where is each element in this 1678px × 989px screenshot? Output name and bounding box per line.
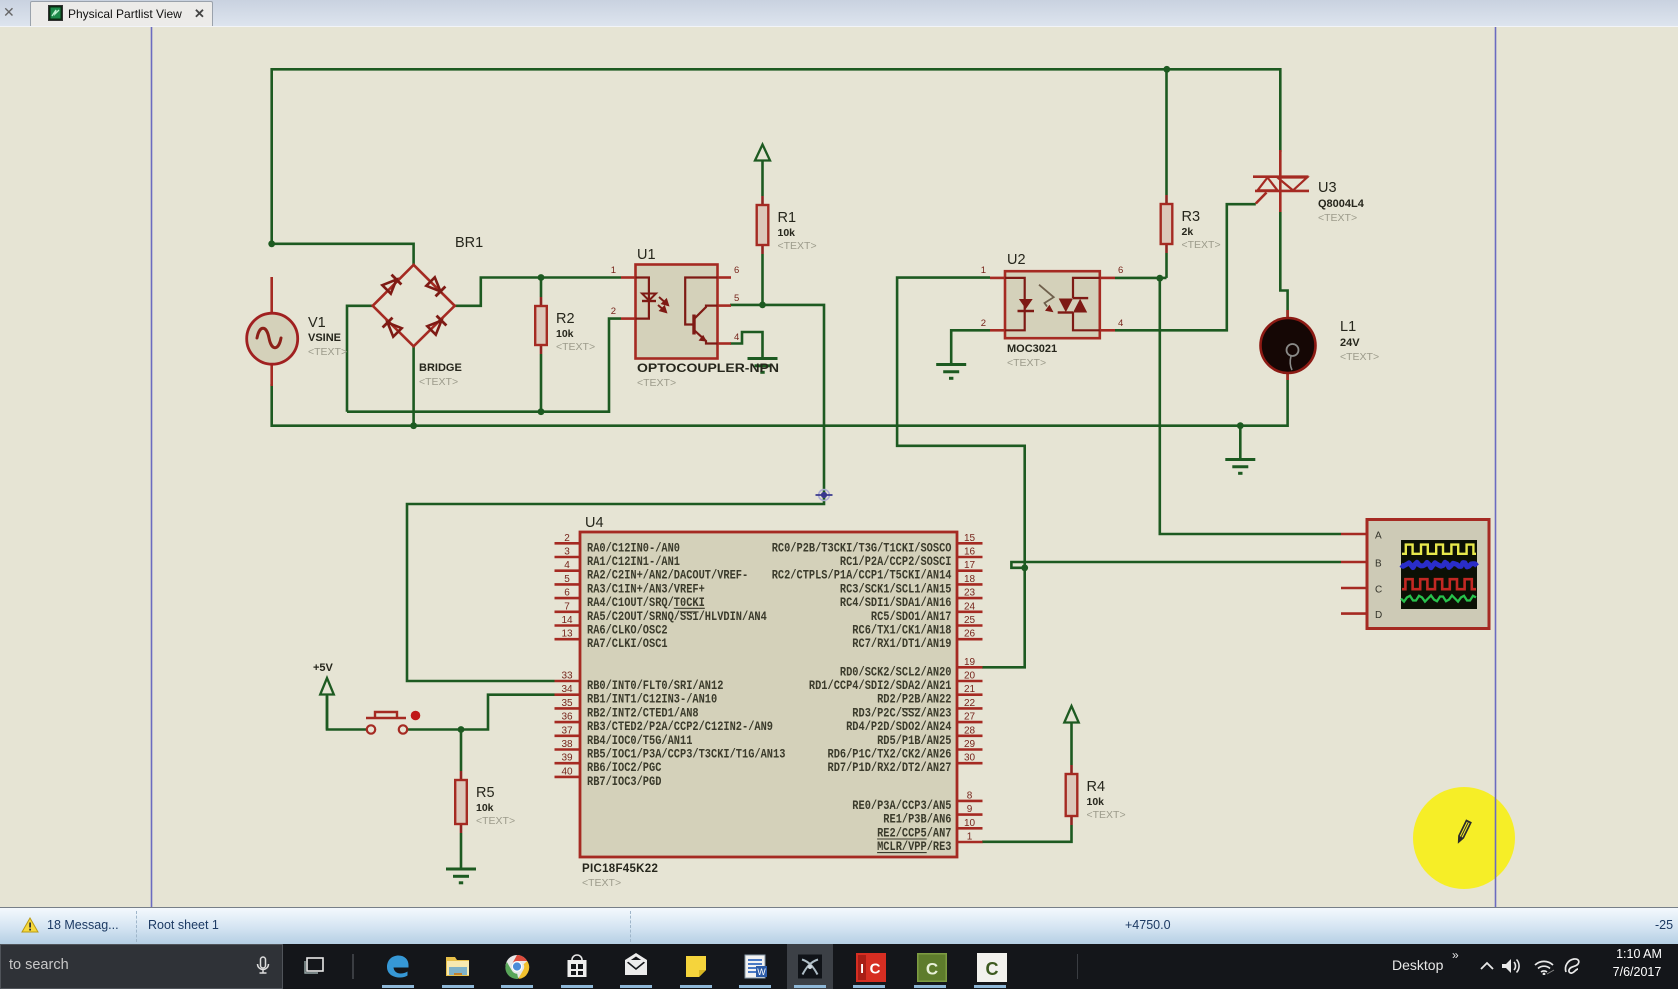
svg-text:RE1/P3B/AN6: RE1/P3B/AN6 [883, 813, 951, 827]
wire [347, 319, 621, 412]
svg-text:R2: R2 [556, 311, 575, 327]
svg-text:<TEXT>: <TEXT> [308, 346, 347, 358]
svg-text:C: C [870, 961, 881, 978]
wire [326, 695, 329, 730]
source V1 VSINE [247, 277, 347, 386]
svg-text:RD5/P1B/AN25: RD5/P1B/AN25 [877, 734, 951, 748]
svg-text:MCLR/VPP/RE3: MCLR/VPP/RE3 [877, 840, 951, 854]
svg-text:RC4/SDI1/SDA1/AN16: RC4/SDI1/SDA1/AN16 [840, 596, 952, 610]
taskbar icon Store [564, 953, 590, 980]
wire [761, 161, 764, 197]
scope trace C red [1402, 579, 1476, 589]
svg-text:40: 40 [561, 766, 573, 777]
svg-text:RA6/CLKO/OSC2: RA6/CLKO/OSC2 [587, 624, 668, 638]
pencil cursor [1457, 821, 1471, 843]
U4 pin 17 RC2 [772, 560, 983, 583]
svg-text:16: 16 [964, 547, 976, 558]
ground [1225, 460, 1255, 474]
wire junction [410, 422, 417, 429]
node origin marker [816, 490, 833, 501]
svg-text:W: W [757, 967, 766, 977]
U4 pin 19 RD0 [840, 657, 983, 680]
resistor R1 [757, 196, 817, 254]
push button [366, 711, 420, 734]
U4 pin 20 RD1 [809, 671, 983, 694]
wire [407, 728, 461, 731]
svg-text:U4: U4 [585, 515, 604, 531]
ground [748, 359, 778, 373]
svg-text:RA5/C2OUT/SRNQ/SS1/HLVDIN/AN4: RA5/C2OUT/SRNQ/SS1/HLVDIN/AN4 [587, 610, 767, 624]
svg-text:RA7/CLKI/OSC1: RA7/CLKI/OSC1 [587, 637, 668, 651]
U4 pin 34 RB1 [555, 684, 718, 707]
svg-text:RB5/IOC1/P3A/CCP3/T3CKI/T1G/AN: RB5/IOC1/P3A/CCP3/T3CKI/T1G/AN13 [587, 748, 785, 762]
U4 pin 16 RC1 [840, 547, 983, 570]
svg-text:RA0/C12IN0-/AN0: RA0/C12IN0-/AN0 [587, 541, 680, 555]
svg-text:<TEXT>: <TEXT> [419, 376, 458, 388]
wire [982, 825, 1072, 842]
svg-text:2k: 2k [1182, 226, 1194, 238]
taskbar icon CamtasiaWhite [977, 953, 1003, 980]
wire [407, 305, 824, 681]
svg-text:27: 27 [964, 712, 976, 723]
svg-text:10: 10 [964, 818, 976, 829]
svg-text:<TEXT>: <TEXT> [556, 341, 595, 353]
svg-text:10k: 10k [1087, 796, 1105, 808]
svg-text:U2: U2 [1007, 252, 1026, 268]
wire junction [538, 274, 545, 281]
scope trace D green [1401, 595, 1476, 601]
U4 pin 7 RA5 [555, 601, 768, 624]
U4 pin 4 RA2 [555, 560, 749, 583]
power +V arrow [1064, 706, 1078, 723]
svg-text:6: 6 [1118, 265, 1123, 276]
taskbar icon IC [856, 953, 882, 980]
svg-text:1: 1 [981, 265, 986, 276]
svg-text:L1: L1 [1340, 319, 1356, 335]
svg-text:30: 30 [964, 753, 976, 764]
svg-text:<TEXT>: <TEXT> [1318, 212, 1357, 224]
svg-text:22: 22 [964, 698, 976, 709]
svg-text:<TEXT>: <TEXT> [476, 815, 515, 827]
U4 pin 39 RB6 [555, 753, 662, 776]
svg-text:29: 29 [964, 739, 976, 750]
U4 pin 18 RC3 [840, 574, 983, 597]
svg-text:A: A [1375, 531, 1382, 542]
wire [460, 833, 463, 868]
taskbar icon Word [742, 953, 768, 980]
svg-text:5: 5 [564, 574, 570, 585]
wire [272, 244, 414, 266]
optocoupler U2 MOC3021 [981, 252, 1124, 369]
svg-text:6: 6 [564, 588, 570, 599]
svg-text:RB2/INT2/CTED1/AN8: RB2/INT2/CTED1/AN8 [587, 706, 699, 720]
svg-text:BR1: BR1 [455, 235, 483, 251]
svg-text:RD0/SCK2/SCL2/AN20: RD0/SCK2/SCL2/AN20 [840, 665, 952, 679]
svg-text:21: 21 [964, 684, 976, 695]
svg-text:1: 1 [611, 265, 616, 276]
svg-text:7: 7 [564, 601, 570, 612]
svg-text:23: 23 [964, 588, 976, 599]
U4 pin 5 RA3 [555, 574, 705, 597]
svg-text:RC7/RX1/DT1/AN19: RC7/RX1/DT1/AN19 [852, 637, 951, 651]
ground [446, 869, 476, 883]
svg-text:5: 5 [734, 293, 739, 304]
wire [897, 278, 1025, 668]
wire [1165, 69, 1168, 195]
svg-text:<TEXT>: <TEXT> [1182, 239, 1221, 251]
svg-text:RC5/SDO1/AN17: RC5/SDO1/AN17 [871, 610, 952, 624]
wire junction [538, 408, 545, 415]
svg-text:VSINE: VSINE [308, 332, 341, 344]
taskbar icon Explorer [445, 953, 471, 980]
triac U3 Q8004L4 [1253, 150, 1365, 224]
svg-text:<TEXT>: <TEXT> [1340, 351, 1379, 363]
svg-text:26: 26 [964, 629, 976, 640]
svg-text:RC0/P2B/T3CKI/T3G/T1CKI/SOSCO: RC0/P2B/T3CKI/T3G/T1CKI/SOSCO [772, 541, 952, 555]
oscilloscope [1367, 520, 1489, 629]
wire junction [1163, 66, 1170, 73]
U4 pin 26 RC7 [852, 629, 982, 652]
svg-text:+5V: +5V [313, 662, 334, 674]
U4 pin 36 RB3 [555, 712, 774, 735]
svg-text:28: 28 [964, 725, 976, 736]
U4 pin 35 RB2 [555, 698, 699, 721]
svg-text:RD2/P2B/AN22: RD2/P2B/AN22 [877, 693, 951, 707]
svg-text:2: 2 [981, 318, 986, 329]
U4 pin 22 RD3 [852, 698, 982, 721]
svg-text:R1: R1 [778, 210, 797, 226]
svg-text:24V: 24V [1340, 337, 1360, 349]
scope trace B blue [1401, 562, 1477, 567]
svg-text:RB1/INT1/C12IN3-/AN10: RB1/INT1/C12IN3-/AN10 [587, 693, 717, 707]
wire [347, 306, 373, 412]
svg-text:RA1/C12IN1-/AN1: RA1/C12IN1-/AN1 [587, 555, 680, 569]
svg-text:4: 4 [1118, 318, 1123, 329]
svg-text:B: B [1375, 559, 1382, 570]
svg-text:25: 25 [964, 615, 976, 626]
U4 pin 3 RA1 [555, 547, 681, 570]
U4 pin 24 RC5 [871, 601, 983, 624]
svg-text:RB0/INT0/FLT0/SRI/AN12: RB0/INT0/FLT0/SRI/AN12 [587, 679, 723, 693]
wire junction [268, 240, 275, 247]
U4 pin 28 RD5 [877, 725, 982, 748]
wire [1165, 253, 1168, 278]
svg-text:RE2/CCP5/AN7: RE2/CCP5/AN7 [877, 826, 951, 840]
taskbar icon Edge [385, 953, 411, 980]
U4 pin 9 RE1 [883, 804, 982, 827]
svg-text:8: 8 [967, 790, 973, 801]
wire [951, 330, 990, 364]
svg-text:10k: 10k [476, 802, 494, 814]
svg-text:35: 35 [561, 698, 573, 709]
svg-text:RE0/P3A/CCP3/AN5: RE0/P3A/CCP3/AN5 [852, 799, 951, 813]
svg-text:24: 24 [964, 601, 976, 612]
microcontroller U4 PIC18F45K22 [580, 515, 957, 889]
power +V arrow [755, 145, 770, 161]
svg-text:14: 14 [561, 615, 573, 626]
svg-text:R4: R4 [1087, 779, 1106, 795]
svg-text:Q8004L4: Q8004L4 [1318, 198, 1365, 210]
svg-text:OPTOCOUPLER-NPN: OPTOCOUPLER-NPN [637, 363, 779, 375]
wire [412, 345, 415, 425]
svg-text:15: 15 [964, 533, 976, 544]
wire [1011, 562, 1341, 568]
svg-text:37: 37 [561, 725, 573, 736]
U4 pin 1 MCLR [877, 832, 982, 855]
svg-text:PIC18F45K22: PIC18F45K22 [582, 863, 658, 875]
svg-text:20: 20 [964, 671, 976, 682]
U4 pin 14 RA6 [555, 615, 668, 638]
U4 pin 8 RE0 [852, 790, 982, 813]
svg-text:R3: R3 [1182, 209, 1201, 225]
button state dot [411, 711, 421, 721]
U4 pin 27 RD4 [846, 712, 982, 735]
svg-text:RC1/P2A/CCP2/SOSCI: RC1/P2A/CCP2/SOSCI [840, 555, 952, 569]
svg-text:<TEXT>: <TEXT> [1007, 357, 1046, 369]
svg-text:U3: U3 [1318, 180, 1337, 196]
svg-text:V1: V1 [308, 315, 326, 331]
svg-text:4: 4 [564, 560, 570, 571]
svg-text:RB6/IOC2/PGC: RB6/IOC2/PGC [587, 761, 662, 775]
wire [1160, 278, 1341, 534]
wire [1239, 426, 1242, 459]
taskbar icon Chrome [504, 953, 530, 980]
svg-text:10k: 10k [556, 328, 574, 340]
svg-text:36: 36 [561, 712, 573, 723]
svg-text:2: 2 [564, 533, 570, 544]
svg-text:RD4/P2D/SDO2/AN24: RD4/P2D/SDO2/AN24 [846, 720, 952, 734]
svg-text:<TEXT>: <TEXT> [637, 377, 676, 389]
svg-text:39: 39 [561, 753, 573, 764]
svg-text:10k: 10k [778, 227, 796, 239]
svg-text:I: I [860, 961, 864, 976]
resistor R2 [535, 297, 595, 354]
svg-text:RD1/CCP4/SDI2/SDA2/AN21: RD1/CCP4/SDI2/SDA2/AN21 [809, 679, 952, 693]
wire [1280, 212, 1287, 317]
svg-text:6: 6 [734, 265, 739, 276]
U4 pin 21 RD2 [877, 684, 982, 707]
svg-text:19: 19 [964, 657, 976, 668]
svg-text:4: 4 [734, 332, 739, 343]
U4 pin 29 RD6 [828, 739, 983, 762]
wire junction [759, 302, 766, 309]
svg-text:RB4/IOC0/T5G/AN11: RB4/IOC0/T5G/AN11 [587, 734, 693, 748]
taskbar icon Mail [623, 953, 649, 980]
U4 pin 6 RA4 [555, 588, 705, 611]
svg-text:RA2/C2IN+/AN2/DACOUT/VREF-: RA2/C2IN+/AN2/DACOUT/VREF- [587, 569, 748, 583]
U4 pin 2 RA0 [555, 533, 681, 556]
lamp L1 24V [1261, 310, 1380, 380]
resistor R5 [455, 771, 515, 833]
wire junction [458, 726, 465, 733]
svg-text:<TEXT>: <TEXT> [778, 240, 817, 252]
svg-text:RC2/CTPLS/P1A/CCP1/T5CKI/AN14: RC2/CTPLS/P1A/CCP1/T5CKI/AN14 [772, 569, 952, 583]
U4 pin 37 RB4 [555, 725, 693, 748]
svg-text:D: D [1375, 610, 1382, 621]
svg-text:17: 17 [964, 560, 976, 571]
wire [1115, 277, 1167, 280]
U4 pin 33 RB0 [555, 671, 724, 694]
resistor R4 [1066, 765, 1126, 825]
resistor R3 [1161, 195, 1221, 253]
U4 pin 40 RB7 [555, 766, 662, 789]
wire [327, 696, 366, 730]
U4 pin 15 RC0 [772, 533, 983, 556]
oscilloscope pins [1341, 534, 1367, 614]
U4 pin 23 RC4 [840, 588, 983, 611]
wire [540, 278, 543, 298]
wire [1070, 723, 1073, 765]
wire junction [1237, 422, 1244, 429]
U4 pin 30 RD7 [828, 753, 983, 776]
svg-text:38: 38 [561, 739, 573, 750]
wire junction [1156, 275, 1163, 282]
U4 pin 10 RE2 [877, 818, 982, 841]
svg-text:RB7/IOC3/PGD: RB7/IOC3/PGD [587, 775, 662, 789]
svg-text:RB3/CTED2/P2A/CCP2/C12IN2-/AN9: RB3/CTED2/P2A/CCP2/C12IN2-/AN9 [587, 720, 773, 734]
svg-text:3: 3 [564, 547, 570, 558]
U4 pin 25 RC6 [852, 615, 982, 638]
U4 active-low bars [674, 608, 927, 852]
wire [272, 374, 1288, 426]
svg-text:RA3/C1IN+/AN3/VREF+: RA3/C1IN+/AN3/VREF+ [587, 582, 705, 596]
wire [455, 278, 621, 306]
svg-text:1: 1 [967, 832, 973, 843]
svg-text:13: 13 [561, 629, 573, 640]
bridge rectifier BR1 [373, 235, 484, 388]
wire [730, 332, 763, 358]
taskbar icon CamtasiaGreen [917, 953, 943, 980]
U4 pin 38 RB5 [555, 739, 786, 762]
svg-text:18: 18 [964, 574, 976, 585]
wire junction [1021, 564, 1028, 571]
scope trace A yellow [1402, 545, 1476, 554]
optocoupler U1 [611, 247, 779, 389]
svg-text:2: 2 [611, 306, 616, 317]
svg-text:R5: R5 [476, 785, 495, 801]
svg-text:9: 9 [967, 804, 973, 815]
svg-text:C: C [926, 960, 938, 979]
svg-text:RC6/TX1/CK1/AN18: RC6/TX1/CK1/AN18 [852, 624, 951, 638]
wire [1115, 204, 1256, 330]
ground [936, 365, 966, 379]
svg-text:33: 33 [561, 671, 573, 682]
svg-text:34: 34 [561, 684, 573, 695]
svg-text:C: C [1375, 585, 1382, 596]
wire [272, 69, 1281, 244]
svg-text:MOC3021: MOC3021 [1007, 343, 1057, 355]
power +5V [313, 662, 334, 695]
svg-text:RD7/P1D/RX2/DT2/AN27: RD7/P1D/RX2/DT2/AN27 [828, 761, 952, 775]
wire [461, 695, 555, 730]
svg-text:U1: U1 [637, 247, 656, 263]
wire [460, 730, 463, 772]
wire [540, 354, 543, 412]
svg-text:<TEXT>: <TEXT> [582, 877, 621, 889]
taskbar icon StickyNotes [683, 953, 709, 980]
cursor highlight circle [1413, 787, 1515, 889]
taskbar icon Proteus [797, 953, 823, 980]
svg-text:C: C [986, 959, 999, 979]
svg-text:RC3/SCK1/SCL1/AN15: RC3/SCK1/SCL1/AN15 [840, 582, 952, 596]
wire [761, 254, 764, 305]
svg-text:<TEXT>: <TEXT> [1087, 809, 1126, 821]
svg-text:RD6/P1C/TX2/CK2/AN26: RD6/P1C/TX2/CK2/AN26 [828, 748, 952, 762]
U4 pin 13 RA7 [555, 629, 668, 652]
svg-text:BRIDGE: BRIDGE [419, 362, 462, 374]
